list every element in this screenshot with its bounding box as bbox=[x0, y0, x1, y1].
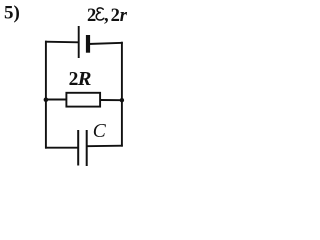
svg-text:R: R bbox=[77, 68, 92, 90]
junction dot left bbox=[44, 97, 49, 102]
svg-text:,: , bbox=[104, 6, 109, 26]
wire: right rail bbox=[121, 42, 123, 147]
battery cell: thick short plate bbox=[86, 35, 90, 53]
wire: top right segment bbox=[88, 43, 123, 44]
wire: top left segment bbox=[45, 41, 79, 44]
svg-text:r: r bbox=[120, 6, 128, 26]
svg-text:5): 5) bbox=[4, 3, 20, 24]
script capital E (EMF symbol) bbox=[96, 8, 104, 20]
label 2E,2r value of battery bbox=[87, 6, 128, 26]
wire: middle left segment bbox=[45, 99, 67, 101]
label 2R bbox=[69, 68, 92, 90]
junction dot right bbox=[120, 98, 124, 102]
svg-text:2: 2 bbox=[87, 6, 96, 26]
capacitor C: left plate bbox=[77, 130, 79, 166]
svg-text:C: C bbox=[93, 121, 107, 142]
resistor 2R box bbox=[66, 93, 100, 107]
wire: bottom left segment bbox=[45, 147, 78, 149]
wire: bottom right segment bbox=[87, 145, 123, 148]
battery cell: thin long plate bbox=[78, 26, 80, 58]
wire: left rail bbox=[45, 41, 47, 149]
svg-text:2: 2 bbox=[111, 6, 120, 26]
capacitor C: right plate bbox=[86, 130, 88, 166]
wire: middle right segment bbox=[101, 99, 123, 101]
